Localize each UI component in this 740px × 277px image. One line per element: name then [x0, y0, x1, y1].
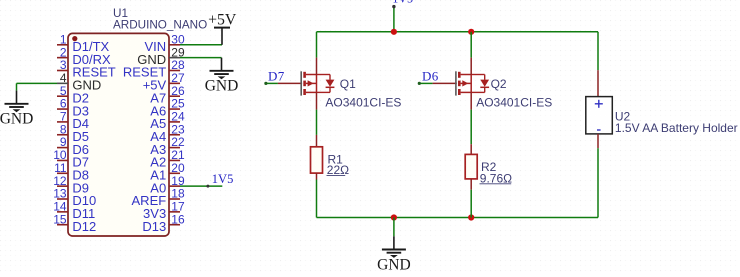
- pin 30 VIN stub: [169, 44, 180, 46]
- wire D7 to Q1 gate: [266, 82, 278, 84]
- wire below R1: [316, 180, 318, 218]
- transistor Q2 source arrow: [462, 80, 468, 86]
- wire end dot D7: [264, 82, 267, 85]
- wire pin4 GND horizontal: [17, 82, 58, 84]
- battery U2 minus mark: [597, 129, 601, 131]
- ground bar 2: [214, 73, 229, 75]
- svg-text:D12: D12: [72, 219, 96, 234]
- battery U2 positive lead: [597, 70, 599, 96]
- pin 1 D1/TX stub: [57, 44, 68, 46]
- net label anchor dot: [206, 185, 209, 188]
- svg-text:GND: GND: [205, 78, 239, 95]
- transistor Q2 body diode bottom link: [471, 91, 485, 93]
- IC U1 ARDUINO_NANO body: [68, 33, 169, 236]
- pin 19 A0 stub: [169, 185, 180, 187]
- battery U2 plus mark horizontal: [595, 103, 603, 105]
- pin 16 D13 stub: [169, 224, 180, 226]
- +5V flag stem: [221, 28, 223, 45]
- transistor Q1 bulk link: [306, 91, 317, 93]
- ground bar 1: [5, 103, 29, 105]
- transistor Q1 body diode triangle: [326, 80, 335, 87]
- pin 7 D4 stub: [57, 121, 68, 123]
- transistor Q1 body diode anode lead: [329, 75, 331, 80]
- net label anchor dot top: [392, 5, 395, 8]
- ground bar 1: [210, 70, 234, 72]
- svg-text:+5V: +5V: [208, 11, 237, 28]
- pin 27 +5V stub: [169, 82, 180, 84]
- resistor R2 body: [465, 154, 477, 179]
- junction dot bottom 2: [468, 214, 474, 220]
- battery U2 negative lead: [597, 134, 599, 148]
- transistor Q2 gate bar: [455, 71, 457, 95]
- pin 21 A2 stub: [169, 159, 180, 161]
- transistor Q1 channel dash middle: [303, 81, 306, 87]
- transistor Q2 body diode top link: [471, 74, 485, 76]
- svg-text:GND: GND: [377, 256, 411, 272]
- wire D6 to Q2 gate: [419, 82, 432, 84]
- transistor Q1 body diode cathode lead: [329, 87, 331, 92]
- wire battery top from rail: [597, 32, 599, 70]
- wire below R2: [470, 190, 472, 218]
- transistor Q2 body diode cathode lead: [484, 87, 486, 92]
- wire above R1: [316, 110, 318, 135]
- pin 20 A1 stub: [169, 172, 180, 174]
- transistor Q1 right vertical: [316, 75, 318, 93]
- ground bar 3 triangle: [218, 76, 226, 79]
- resistor R1 bottom lead: [316, 173, 318, 179]
- transistor Q2 body diode anode lead: [484, 75, 486, 80]
- resistor R2 bottom lead: [470, 179, 472, 190]
- pin 15 D12 stub: [57, 224, 68, 226]
- transistor Q2 right vertical: [470, 75, 472, 93]
- transistor Q2 source stub: [470, 92, 472, 109]
- wire end dot D6: [418, 82, 421, 85]
- wire Q1 drain to top rail: [316, 32, 318, 58]
- transistor Q2 channel dash bottom: [458, 89, 461, 95]
- svg-text:16: 16: [171, 212, 185, 226]
- svg-text:1V5: 1V5: [392, 0, 413, 6]
- svg-text:Q1: Q1: [340, 77, 356, 91]
- svg-text:1V5: 1V5: [212, 172, 234, 186]
- transistor Q1 gate bar: [300, 71, 302, 95]
- resistor R1 top lead: [316, 135, 318, 147]
- wire bottom rail GND: [317, 217, 599, 219]
- battery U2 plus mark vertical: [598, 100, 600, 108]
- junction dot bottom 1: [391, 214, 397, 220]
- pin 10 D7 stub: [57, 159, 68, 161]
- pin 29 GND stub: [169, 57, 180, 59]
- transistor Q1 body diode top link: [317, 74, 331, 76]
- transistor Q1 channel dash top: [303, 72, 306, 78]
- transistor Q2 gate lead: [433, 82, 457, 84]
- pin 28 RESET stub: [169, 70, 180, 72]
- wire bottom gnd stub: [393, 218, 395, 237]
- +5V flag bar: [214, 27, 230, 29]
- pin 8 D5 stub: [57, 134, 68, 136]
- wire battery bottom to rail: [597, 148, 599, 217]
- wire 1V5 stub up: [393, 7, 395, 32]
- pin 2 D0/RX stub: [57, 57, 68, 59]
- pin 4 GND stub: [57, 82, 68, 84]
- resistor R1 body: [311, 147, 323, 173]
- pin 1 marker dot: [72, 36, 77, 41]
- transistor Q1 drain link: [306, 74, 317, 76]
- transistor Q2 channel dash middle: [458, 81, 461, 87]
- wire pin29 GND to ground: [180, 57, 222, 59]
- wire above R2: [470, 110, 472, 145]
- transistor Q1 body diode cathode bar: [326, 86, 335, 88]
- transistor Q1 source link: [306, 82, 317, 84]
- pin 14 D11 stub: [57, 211, 68, 213]
- pin 13 D10 stub: [57, 198, 68, 200]
- wire pin19 A0 to net 1V5: [180, 185, 222, 187]
- svg-text:1.5V AA Battery Holder: 1.5V AA Battery Holder: [615, 121, 738, 135]
- pin 25 A6 stub: [169, 108, 180, 110]
- pin 18 AREF stub: [169, 198, 180, 200]
- transistor Q1 source stub: [316, 92, 318, 109]
- transistor Q2 body diode triangle: [480, 80, 489, 87]
- wire Q2 drain to top rail: [470, 32, 472, 58]
- svg-text:D13: D13: [142, 219, 166, 234]
- pin 22 A3 stub: [169, 147, 180, 149]
- ground symbol stem: [16, 91, 18, 104]
- ground bar 2: [9, 106, 24, 108]
- svg-text:AO3401CI-ES: AO3401CI-ES: [476, 96, 552, 110]
- ground symbol stem: [393, 236, 395, 249]
- pin 3 RESET stub: [57, 70, 68, 72]
- pin 9 D6 stub: [57, 147, 68, 149]
- transistor Q2 drain stub: [470, 58, 472, 75]
- transistor Q1 source arrow: [308, 80, 314, 86]
- svg-text:9.76Ω: 9.76Ω: [480, 171, 512, 185]
- label R2 value underline: [480, 183, 512, 185]
- pin 24 A5 stub: [169, 121, 180, 123]
- pin 6 D3 stub: [57, 108, 68, 110]
- svg-text:22Ω: 22Ω: [327, 163, 349, 177]
- transistor Q1 body diode bottom link: [317, 91, 331, 93]
- wire pin30 VIN to +5V flag: [180, 44, 222, 46]
- svg-text:GND: GND: [0, 111, 33, 128]
- transistor Q2 body diode cathode bar: [480, 86, 489, 88]
- svg-text:AO3401CI-ES: AO3401CI-ES: [325, 96, 401, 110]
- pin 17 3V3 stub: [169, 211, 180, 213]
- ground bar 2: [387, 252, 402, 254]
- junction dot top 2: [468, 29, 474, 35]
- svg-text:ARDUINO_NANO: ARDUINO_NANO: [113, 18, 207, 31]
- transistor Q1 gate lead: [278, 82, 302, 84]
- pin 12 D9 stub: [57, 185, 68, 187]
- svg-text:D6: D6: [422, 69, 439, 84]
- ground bar 3 triangle: [390, 255, 398, 258]
- transistor Q2 drain link: [461, 74, 472, 76]
- battery U2 body: [586, 97, 613, 134]
- transistor Q2 bulk link: [461, 91, 472, 93]
- svg-text:15: 15: [53, 212, 67, 226]
- transistor Q2 source link: [461, 82, 472, 84]
- label R1 value underline: [327, 174, 346, 176]
- ground bar 1: [382, 249, 406, 251]
- transistor Q1 drain stub: [316, 58, 318, 75]
- junction dot top 1: [391, 29, 397, 35]
- pin 23 A4 stub: [169, 134, 180, 136]
- resistor R2 top lead: [470, 144, 472, 154]
- wire pin4 GND vertical: [16, 83, 18, 90]
- wire top rail 1V5: [317, 31, 599, 33]
- transistor Q1 channel dash bottom: [303, 89, 306, 95]
- pin 5 D2 stub: [57, 95, 68, 97]
- pin 11 D8 stub: [57, 172, 68, 174]
- svg-text:D7: D7: [268, 69, 285, 84]
- svg-text:Q2: Q2: [491, 77, 507, 91]
- transistor Q2 channel dash top: [458, 72, 461, 78]
- pin 26 A7 stub: [169, 95, 180, 97]
- ground symbol stem: [221, 58, 223, 71]
- ground bar 3 triangle: [13, 109, 21, 112]
